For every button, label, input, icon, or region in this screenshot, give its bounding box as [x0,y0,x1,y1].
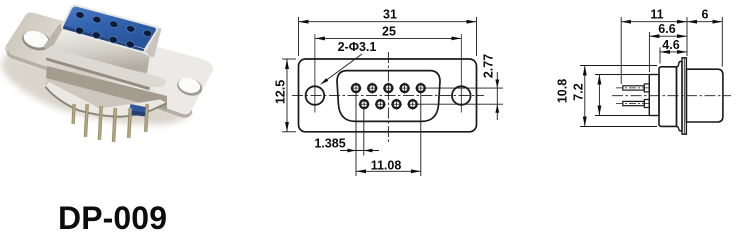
pin hole 6 [359,99,370,110]
mounting hole left [306,86,325,105]
front view D-shroud outline [337,71,440,122]
photo: flange plate top surface [5,13,213,115]
photo: pin 4 [112,108,117,142]
dimension 4.6 extension line [659,48,661,64]
svg-text:11: 11 [650,8,663,22]
mounting hole right [452,86,471,105]
photo: rear insulator blue strip [129,104,149,117]
upper solder pin [623,86,645,90]
photo: pin 2 [84,104,89,137]
pin hole 2 [367,83,378,94]
photo: hanging rear body below flange [46,66,167,116]
dimension 7.2 extension lines [595,74,651,76]
svg-text:6: 6 [702,8,709,22]
photo: blue insert front edge [63,26,144,52]
photo: insert hole row A3 [109,20,119,29]
photo: insert hole row B1 [74,26,84,35]
photo: shroud front face [54,31,150,74]
photo: metal rim around insert [61,5,158,51]
dimension 2.77 extension lines [426,87,504,89]
mounting hole right centerline [460,34,462,113]
dimension 1.385 extension lines [355,94,357,177]
svg-text:2.77: 2.77 [482,54,496,78]
photo: pin 5 [127,108,132,138]
dimension 25 line [315,37,461,39]
side view horizontal centerline [612,95,731,97]
lower pin centerline [616,103,650,105]
upper pin centerline [616,87,650,89]
front view outer flange outline [299,59,477,132]
dimension 10.8 line [584,66,586,127]
photo: hanging rear body dark lower outline [45,86,167,118]
svg-text:12.5: 12.5 [274,80,288,104]
dimension 12.5 extension lines [282,58,296,60]
photo: rim front bright line [63,29,144,53]
photo: insert hole row A4 [126,24,136,33]
pin hole 9 [407,99,418,110]
side view [556,8,732,135]
pin hole 5 [415,83,426,94]
dimension 11 extension line [620,17,622,84]
photo: insert hole row A5 [143,29,153,38]
dimension 31 line [299,21,477,23]
dimension 31 extension lines [298,17,300,56]
photo: pin 1 [71,104,75,124]
svg-text:6.6: 6.6 [658,22,675,36]
photo: pin 3 [98,106,103,140]
dimension 1.385 line with outside arrows [340,150,379,152]
photo: insert hole row B4 [125,40,135,49]
photo: pin 6 [144,104,149,132]
svg-text:25: 25 [382,24,396,38]
dimension 10.8 extension lines [580,65,657,67]
front view vertical centerline [387,52,389,143]
photo: hanging rear body bottom bright edge [46,82,166,116]
photo: insert hole row B3 [108,35,118,44]
photo: insert hole row A1 [75,11,85,20]
photo: flange bright right area [150,45,213,114]
pin hole 4 [399,83,410,94]
front view [274,8,504,176]
rear insulator block [649,75,659,116]
front view horizontal centerline [292,95,484,97]
photo: shroud base skirt bright [45,46,167,87]
shell collar lip [677,62,683,131]
dimension 11 line [621,21,687,23]
photo: left mounting hole [22,28,51,50]
mounting flange plate [682,58,686,134]
photo: insert hole row B2 [91,31,101,40]
pin hole 3 [383,83,394,94]
dimension 6.6 line [649,35,687,37]
label 2-dia3.1 leader [324,54,362,82]
photo: insert hole row A2 [92,15,102,24]
dimension 12.5 line [286,59,288,132]
svg-text:10.8: 10.8 [556,79,570,103]
dimension 6.6 extension line [648,32,650,72]
svg-text:1.385: 1.385 [314,136,345,150]
shell barrel section [659,67,677,127]
photo: flange near edge face [7,50,193,118]
pin hole 1 [351,83,362,94]
photo: shroud base skirt shadow line [46,58,150,91]
svg-text:DP-009: DP-009 [58,200,167,231]
front shell body [686,69,723,122]
svg-text:7.2: 7.2 [572,83,586,100]
svg-text:11.08: 11.08 [371,159,402,173]
photo: cast shadow [2,48,190,125]
photo: shroud left end face [44,24,64,50]
shared flange extension line [686,17,688,56]
dimension 6 extension line [721,17,723,67]
svg-text:4.6: 4.6 [662,38,679,52]
lower solder pin [623,101,645,105]
photo: connector [2,5,213,142]
dimension 7.2 line [598,75,600,116]
svg-text:2-Φ3.1: 2-Φ3.1 [338,40,377,54]
photo: right mounting hole [177,75,202,95]
photo: shroud right end face [144,27,162,57]
svg-text:31: 31 [383,8,397,22]
dimension 11.08 line [356,170,421,172]
photo: left mounting hole rim [20,28,53,54]
dimension 4.6 line [660,51,687,53]
dimension 6 line [687,21,722,23]
pin hole 7 [375,99,386,110]
photo: right mounting hole rim [175,75,204,99]
mounting hole left centerline [314,34,316,113]
pin hole 8 [391,99,402,110]
photo: blue insert top face [64,7,157,49]
dimension 11.08 extension line [420,94,422,177]
dimension 2.77 line with outside arrows [496,72,498,120]
